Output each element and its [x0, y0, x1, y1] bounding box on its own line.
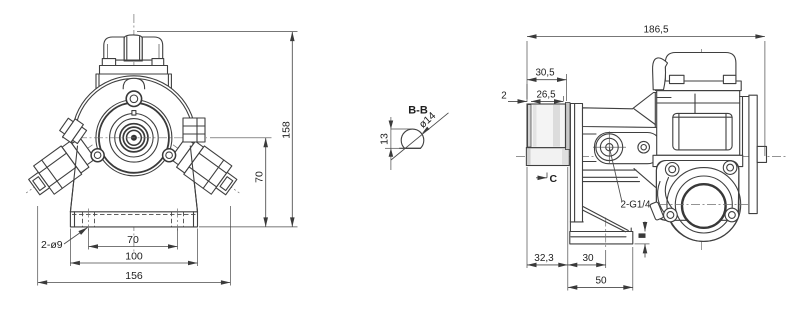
- ext line stub lip2: [563, 96, 565, 101]
- svg-text:30: 30: [582, 253, 594, 264]
- ext vertical line: [390, 117, 392, 170]
- head bolt 2: [723, 161, 737, 175]
- block to plate connect: [740, 96, 749, 98]
- bracket foot pad: [570, 232, 633, 244]
- bracket foot plate: [570, 222, 631, 232]
- G1/4 port boss circle: [593, 132, 626, 164]
- head bolt 4: [664, 208, 678, 222]
- dim 70 vertical: [254, 138, 266, 227]
- main valve body block: [657, 91, 740, 156]
- dim 50: [568, 275, 633, 287]
- leader dia14: [391, 110, 449, 160]
- arch detail over top screw: [123, 78, 144, 89]
- lower-right screw: [163, 149, 176, 162]
- svg-text:50: 50: [595, 275, 607, 286]
- leader 2-G1/4: [610, 148, 652, 211]
- cap flange: [100, 66, 168, 75]
- big body circle: [72, 76, 196, 200]
- dim 30: [568, 253, 606, 265]
- ext lines under base holes: [88, 229, 90, 250]
- elbow pipe lower-left: [650, 178, 676, 221]
- small bolt on port plate: [638, 141, 650, 153]
- base hole left hidden: [83, 209, 95, 231]
- svg-text:13: 13: [379, 133, 391, 145]
- ext lines port outer: [37, 206, 39, 286]
- inner face circle: [96, 100, 172, 176]
- cap tabs: [670, 75, 685, 83]
- ext line base bottom to right: [199, 226, 298, 228]
- head bore circle: [682, 184, 726, 228]
- svg-text:C: C: [550, 173, 558, 185]
- foot hole centerline: [605, 218, 607, 248]
- cap left ear: [653, 58, 668, 90]
- mounting plate: [570, 104, 582, 222]
- ext line stub lip: [566, 74, 568, 101]
- upper arm from plate: [583, 93, 661, 128]
- port face plate with rounded ends: [595, 133, 662, 164]
- ext line shaft center to right: [210, 137, 272, 139]
- pump head plate: [656, 161, 739, 242]
- cap cover: [104, 37, 163, 60]
- base plate: [70, 212, 197, 227]
- dim 156 horizontal: [38, 270, 231, 283]
- head mid circle: [675, 176, 732, 233]
- motor cap dome: [665, 53, 736, 82]
- dim 26,5: [531, 90, 564, 102]
- svg-text:70: 70: [127, 234, 139, 246]
- svg-text:186,5: 186,5: [643, 25, 668, 36]
- section C arrow: [536, 173, 558, 186]
- left side stub: [58, 115, 89, 146]
- head horizontal centerline: [659, 204, 752, 206]
- dim 30,5: [527, 68, 567, 80]
- svg-text:26,5: 26,5: [536, 90, 556, 101]
- svg-text:2: 2: [501, 91, 506, 102]
- dim 13: [379, 121, 394, 157]
- head bolt 3: [725, 208, 739, 222]
- shaft boss concentric circles: [110, 111, 159, 163]
- centerline vertical: [133, 14, 135, 252]
- svg-text:158: 158: [281, 121, 293, 139]
- body flank edge over left port: [70, 146, 77, 212]
- top screw M with washer: [126, 91, 141, 106]
- svg-text:70: 70: [254, 171, 266, 183]
- body flank edge over right port: [190, 146, 197, 212]
- right port fitting: [163, 131, 250, 208]
- svg-text:2-ø9: 2-ø9: [41, 239, 63, 251]
- shaft stub collar lower: [526, 148, 569, 166]
- right end plate: [749, 95, 757, 213]
- head flange band: [653, 155, 743, 166]
- top boss cylinder: [124, 35, 142, 61]
- shaft stub lip: [565, 103, 570, 150]
- spacer connect lines: [583, 133, 597, 135]
- head bolt 1: [665, 163, 679, 177]
- dim 70 horizontal: [89, 234, 178, 247]
- dim 2 leader: [501, 91, 527, 102]
- dim 32,3: [527, 253, 568, 265]
- pump chamber bottom lines: [583, 169, 656, 188]
- foot thickness dim: [635, 222, 650, 258]
- dim 158 vertical: [281, 32, 293, 227]
- ext line cap top to right: [137, 31, 298, 33]
- head outer circle: [667, 168, 741, 242]
- base hidden line: [72, 214, 196, 216]
- svg-text:2-G1/4: 2-G1/4: [621, 200, 652, 211]
- trapezoid lower body: [70, 150, 197, 212]
- right end tab: [757, 146, 766, 162]
- shaft centerline cross: [62, 137, 207, 139]
- lower-left screw: [91, 149, 104, 162]
- main horizontal centerline: [516, 156, 786, 158]
- cap tabs: [102, 59, 115, 66]
- dim 100 horizontal: [70, 251, 197, 264]
- base hole right hidden: [172, 209, 184, 231]
- shaft stub upper: [527, 104, 566, 148]
- ext line left stub top: [526, 41, 528, 102]
- right side connector block: [183, 118, 205, 142]
- ext lines bottom: [526, 167, 528, 268]
- svg-text:32,3: 32,3: [534, 253, 554, 264]
- vertical centerline of cap/head: [701, 49, 703, 250]
- block corner step: [657, 97, 671, 99]
- shaft circle with bottom flat: [401, 129, 424, 148]
- ext line right end: [764, 41, 766, 156]
- body top block: [96, 74, 171, 89]
- cap flange band: [656, 81, 742, 91]
- bracket gusset: [581, 206, 628, 232]
- svg-text:30,5: 30,5: [535, 68, 555, 79]
- ext horizontals: [391, 128, 413, 130]
- leader 2-dia9: [41, 228, 88, 252]
- svg-text:156: 156: [125, 270, 143, 282]
- svg-text:100: 100: [125, 251, 143, 263]
- left port fitting: [16, 131, 103, 208]
- dim 186,5: [527, 25, 765, 37]
- ext lines base corners: [69, 229, 71, 267]
